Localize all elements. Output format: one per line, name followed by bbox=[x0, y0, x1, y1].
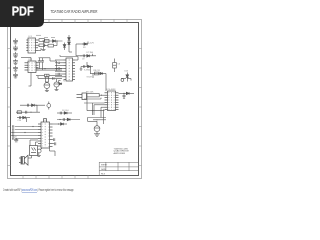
transistor Q3 bbox=[37, 148, 42, 155]
node dot O bbox=[24, 132, 25, 133]
U5 pin numbers bbox=[108, 93, 115, 110]
wire U4 out bottom bbox=[50, 148, 56, 156]
SCHEMATIC INK bbox=[11, 35, 134, 165]
svg-text:R15 10K: R15 10K bbox=[86, 92, 94, 94]
capacitor C27 bbox=[63, 118, 64, 121]
wire J1 to U4 bbox=[11, 127, 38, 139]
ground Q3 bbox=[37, 155, 41, 156]
title block table bbox=[99, 162, 138, 175]
wire row P2 bbox=[57, 119, 80, 121]
wire U5 right out bbox=[119, 92, 135, 94]
svg-text:ST-BY: ST-BY bbox=[87, 77, 93, 79]
capacitor C2 bbox=[13, 45, 18, 51]
diode D4 bbox=[84, 43, 87, 46]
capacitor C17 bbox=[25, 111, 26, 114]
diode D8 bbox=[32, 104, 35, 107]
capacitor C10 bbox=[55, 67, 64, 69]
capacitor C13 bbox=[41, 58, 44, 65]
capacitor C26 bbox=[60, 112, 61, 115]
diode D6 bbox=[59, 83, 61, 85]
capacitor C7 bbox=[83, 54, 84, 57]
label smudge row bbox=[36, 35, 55, 37]
diode D10 bbox=[61, 123, 64, 126]
wire top chain bbox=[42, 41, 63, 50]
resistor R10 bbox=[39, 44, 45, 47]
diode D13 bbox=[126, 73, 131, 82]
node dot K bbox=[123, 93, 124, 94]
svg-text:SHEET: SHEET bbox=[101, 165, 108, 167]
resistor R5 bbox=[45, 75, 48, 83]
op-amp U1 bbox=[26, 38, 38, 53]
wire supply row bbox=[76, 54, 96, 56]
svg-text:C23: C23 bbox=[13, 136, 16, 138]
capacitor C16 bbox=[47, 102, 51, 110]
node dot N bbox=[32, 126, 33, 127]
wire filter row2 bbox=[16, 111, 40, 113]
wire U3 left pins bbox=[55, 60, 64, 77]
svg-text:+12V: +12V bbox=[89, 42, 95, 44]
capacitor C4 bbox=[13, 59, 18, 65]
node dot J bbox=[101, 95, 102, 96]
node dot I bbox=[58, 123, 59, 124]
frame outer border bbox=[8, 20, 142, 179]
capacitor C6 bbox=[13, 72, 18, 78]
diode D12 bbox=[100, 72, 103, 75]
capacitor C22 bbox=[53, 142, 56, 145]
U1 pin numbers bbox=[29, 40, 35, 50]
resistor R7 long bbox=[84, 94, 105, 100]
svg-text:PDF: PDF bbox=[12, 5, 34, 19]
wire D3 to rail bbox=[69, 48, 72, 52]
diode D14 bbox=[64, 112, 67, 115]
U1 internal text bbox=[31, 40, 33, 52]
wire lower mesh bbox=[36, 76, 62, 79]
diode D16 bbox=[88, 65, 91, 68]
ground Q2 bbox=[55, 90, 59, 91]
svg-text:D3 C44: D3 C44 bbox=[62, 110, 68, 112]
node dot C bbox=[80, 55, 81, 56]
frame zone ticks right bbox=[139, 49, 142, 166]
ground Q1 bbox=[45, 91, 49, 92]
wire relay bottom bbox=[28, 156, 32, 159]
resistor R2 bbox=[44, 41, 58, 47]
diode D11 bbox=[126, 92, 129, 95]
resistor R6 bbox=[17, 111, 21, 114]
frame inner border bbox=[11, 23, 139, 176]
wire row Q bbox=[81, 62, 93, 74]
op-amp U2 bbox=[25, 61, 39, 73]
U5 internal text bbox=[111, 92, 113, 109]
svg-text:C6: C6 bbox=[118, 63, 120, 65]
wire mute row bbox=[17, 118, 30, 122]
zener D3 bbox=[68, 35, 71, 48]
capacitor C24 bbox=[123, 93, 126, 98]
ground Q5 bbox=[94, 134, 100, 136]
speaker SP1 bbox=[19, 155, 28, 165]
U2 pin numbers bbox=[29, 63, 36, 70]
PDF badge bbox=[0, 0, 44, 27]
power amp U5 bbox=[105, 91, 119, 111]
resistor R4 bbox=[45, 74, 50, 77]
node dot L bbox=[96, 119, 97, 120]
diode D15 bbox=[67, 118, 70, 121]
wire U2 bottom bbox=[29, 73, 32, 87]
capacitor C25 electrolytic bbox=[113, 59, 117, 73]
wire relay top bbox=[30, 140, 38, 146]
capacitor C14 bbox=[53, 77, 54, 80]
title block text bbox=[101, 147, 129, 175]
capacitor C18 bbox=[19, 116, 20, 119]
wire mid right runs bbox=[90, 74, 106, 92]
ground Q row bbox=[80, 69, 83, 70]
diode D1 bbox=[53, 40, 56, 43]
diode D9 bbox=[23, 116, 26, 119]
capacitor C28 bbox=[83, 65, 84, 68]
svg-text:AMPLIFIER: AMPLIFIER bbox=[114, 152, 126, 155]
svg-text:DATE: DATE bbox=[101, 168, 107, 171]
optocoupler U6 bbox=[77, 93, 87, 100]
svg-text:Created with novaPDF (www.nova: Created with novaPDF (www.novaPDF.com). … bbox=[3, 187, 74, 192]
svg-text:D13: D13 bbox=[125, 71, 128, 73]
frame zone ticks top bbox=[23, 19, 127, 23]
capacitor C3 bbox=[13, 52, 18, 58]
svg-text:R3: R3 bbox=[83, 47, 85, 49]
svg-text:S-GND: S-GND bbox=[84, 70, 91, 72]
resistor R9 bbox=[39, 39, 45, 42]
node dot B bbox=[82, 43, 83, 44]
svg-text:C20: C20 bbox=[18, 120, 21, 122]
resistor R1 bbox=[45, 40, 50, 43]
capacitor C21 bbox=[53, 138, 55, 141]
wire U1 right links bbox=[38, 40, 46, 50]
node dot H bbox=[30, 112, 31, 113]
node dot D bbox=[44, 68, 45, 69]
ground bbox=[42, 50, 46, 51]
amplifier U4 bbox=[38, 119, 53, 149]
capacitor C12 bbox=[38, 58, 41, 65]
varistor cluster bbox=[121, 79, 126, 82]
node dot A bbox=[56, 40, 57, 41]
U4 internal text bbox=[44, 124, 46, 148]
wire U2 top bbox=[21, 58, 31, 62]
wire filter row1 bbox=[20, 105, 45, 112]
U3 internal text bbox=[68, 60, 70, 81]
wire U5 left mesh bbox=[84, 97, 106, 124]
wire mesh mid bbox=[36, 58, 62, 70]
capacitor C1 bbox=[13, 38, 18, 44]
svg-text:TDA7560 CAR RADIO AMPLIFIER: TDA7560 CAR RADIO AMPLIFIER bbox=[51, 9, 98, 14]
capacitor C15 bbox=[27, 104, 28, 107]
relay K1 bbox=[30, 146, 38, 156]
wire U3 top pair bbox=[60, 55, 78, 60]
capacitor C23 bbox=[14, 138, 18, 142]
frame zone ticks bottom bbox=[23, 175, 88, 178]
U2 internal text bbox=[31, 63, 33, 72]
connector J1 input pins bbox=[13, 125, 14, 139]
svg-text:IC5 4053: IC5 4053 bbox=[107, 89, 117, 91]
node dot M bbox=[92, 110, 93, 111]
svg-text:C9: C9 bbox=[82, 58, 84, 60]
resistor R8 bbox=[95, 72, 99, 75]
frame zone ticks left bbox=[8, 49, 11, 166]
capacitor C11 bbox=[55, 73, 64, 75]
wire U4 out top bbox=[53, 123, 68, 125]
svg-text:T2: T2 bbox=[63, 81, 65, 83]
transistor Q5 bbox=[94, 121, 100, 134]
capacitor C8 bbox=[55, 62, 64, 64]
U4 pin numbers bbox=[42, 124, 50, 147]
node dot E bbox=[56, 70, 57, 71]
node dot G bbox=[35, 105, 36, 106]
node dot P bbox=[59, 119, 60, 120]
transistor Q2 bbox=[54, 79, 59, 90]
svg-text:R8 C31: R8 C31 bbox=[94, 70, 100, 72]
diode D2 bbox=[63, 43, 66, 51]
capacitor C5 bbox=[13, 66, 18, 72]
diode D5 bbox=[87, 55, 90, 58]
wire row P1 bbox=[57, 112, 72, 114]
wire corner F bbox=[59, 81, 61, 84]
transistor Q1 bbox=[44, 82, 50, 91]
connector U3 bbox=[64, 58, 76, 81]
svg-text:D7 1N4: D7 1N4 bbox=[87, 52, 93, 54]
wire +12V feed bbox=[76, 42, 88, 56]
